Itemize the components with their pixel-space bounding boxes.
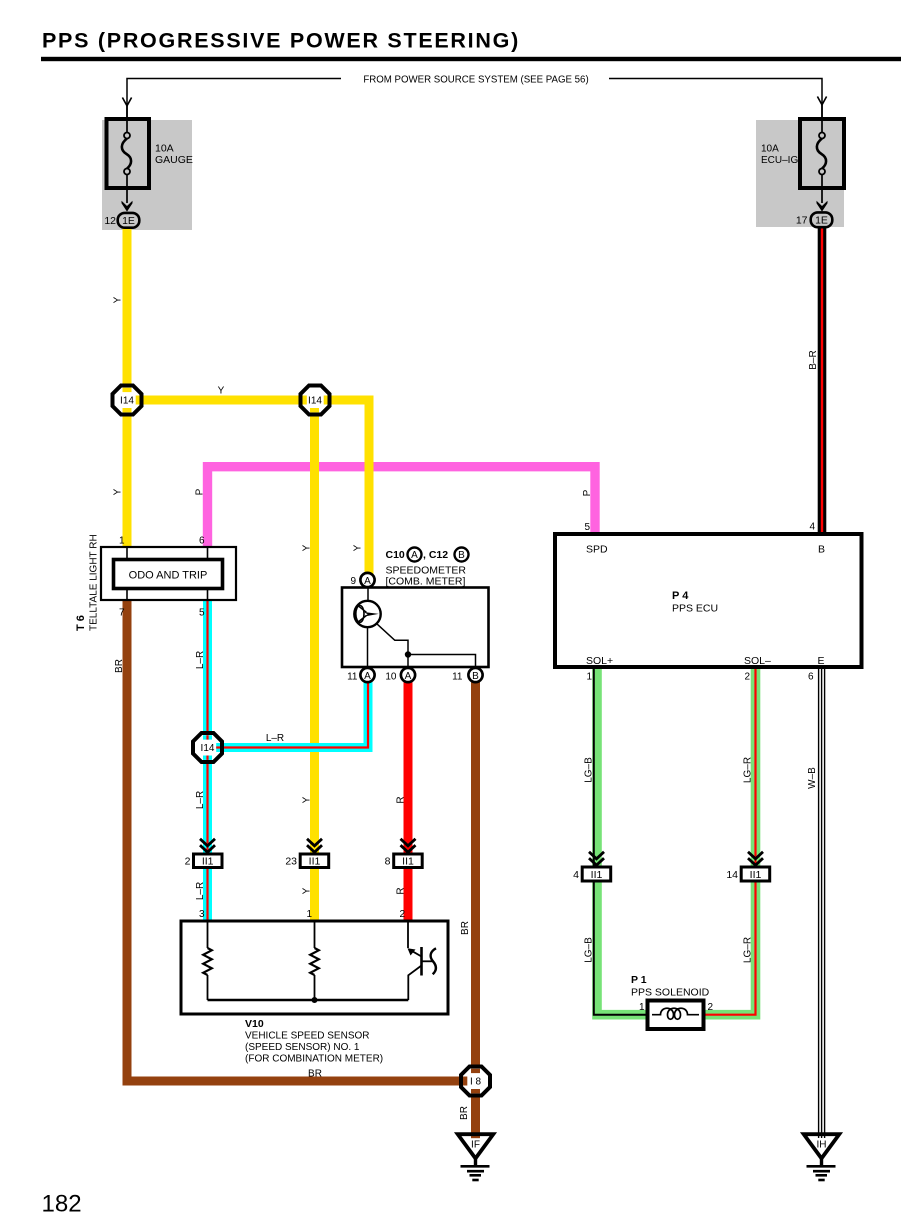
wire B-R ECU-IG fuse to ECU pin B (818, 227, 827, 537)
svg-text:23: 23 (285, 856, 297, 868)
svg-text:A: A (405, 671, 412, 682)
junction I14 top-left (113, 386, 142, 415)
PPS ECU P4 (555, 522, 862, 683)
svg-text:V10: V10 (245, 1018, 264, 1030)
svg-text:LG–B: LG–B (584, 937, 595, 963)
svg-text:B–R: B–R (808, 350, 819, 369)
svg-text:2: 2 (399, 909, 405, 920)
internal lead to pin 11B (408, 655, 476, 669)
transistor sensor (407, 921, 409, 948)
svg-text:BR: BR (460, 921, 471, 935)
svg-text:PPS SOLENOID: PPS SOLENOID (631, 987, 710, 999)
V10 VEHICLE SPEED SENSOR (181, 909, 448, 1065)
svg-text:PPS (PROGRESSIVE POWER STEERIN: PPS (PROGRESSIVE POWER STEERING) (42, 29, 520, 53)
solid arrow into connector 1E (817, 201, 828, 212)
FUSE RIGHT 10A ECU-IG (761, 104, 844, 227)
pin 5 lead (207, 588, 209, 600)
svg-text:1: 1 (586, 672, 592, 683)
svg-text:P 1: P 1 (631, 974, 647, 986)
svg-text:C10: C10 (386, 549, 405, 561)
wire power feed left (127, 79, 341, 120)
svg-text:BR: BR (308, 1069, 322, 1080)
svg-text:Y: Y (218, 386, 225, 397)
svg-text:E: E (817, 655, 824, 667)
svg-text:LG–B: LG–B (584, 757, 595, 783)
junction I14 lower (193, 733, 222, 762)
connector II1 (8) (385, 839, 423, 868)
svg-text:GAUGE: GAUGE (155, 154, 193, 166)
SPEEDOMETER component C10/C12 (342, 548, 489, 683)
svg-text:1: 1 (639, 1002, 645, 1013)
internal diagonal to junction (377, 624, 409, 655)
svg-text:A: A (364, 671, 371, 682)
svg-text:T 6: T 6 (75, 615, 87, 631)
svg-text:4: 4 (573, 869, 579, 881)
svg-text:9: 9 (350, 576, 356, 587)
junction I8 bottom (461, 1067, 490, 1096)
svg-text:10A: 10A (155, 143, 174, 155)
svg-text:A: A (411, 550, 418, 561)
gauge symbol (354, 601, 380, 627)
svg-text:Y: Y (302, 796, 313, 803)
svg-text:5: 5 (584, 522, 590, 533)
wire Y from gauge fuse down to ODO pin1 (123, 228, 132, 549)
wire Y down to V10 pin 1 (310, 400, 319, 923)
fuse element (819, 133, 825, 139)
fuse block background left (102, 120, 192, 230)
svg-text:Y: Y (113, 296, 124, 303)
fuse block background right (756, 120, 844, 227)
fuse lead bottom (126, 175, 128, 204)
wire L-R cyan ODO pin5 down to V10 pin3 (203, 598, 212, 923)
svg-text:SPD: SPD (586, 544, 608, 556)
fuse lead top (126, 105, 128, 133)
connector oval 1E right (811, 212, 833, 227)
svg-text:VEHICLE SPEED SENSOR: VEHICLE SPEED SENSOR (245, 1031, 369, 1042)
connector oval 1E left (118, 213, 140, 228)
svg-text:Y: Y (353, 544, 364, 551)
svg-text:[COMB. METER]: [COMB. METER] (386, 576, 466, 588)
svg-text:B: B (458, 550, 465, 561)
connector II1 (4) (573, 852, 611, 881)
junction dot (312, 997, 318, 1003)
resistor middle (314, 921, 316, 948)
fuse lead bottom (821, 175, 823, 204)
svg-text:I 8: I 8 (470, 1077, 482, 1088)
pin 7 lead (126, 588, 128, 600)
svg-text:I14: I14 (201, 743, 215, 754)
svg-text:Y: Y (113, 488, 124, 495)
svg-text:BR: BR (114, 659, 125, 673)
svg-text:PPS ECU: PPS ECU (672, 603, 718, 615)
svg-text:182: 182 (42, 1191, 82, 1218)
svg-text:1: 1 (306, 909, 312, 920)
svg-text:6: 6 (199, 536, 205, 547)
svg-text:11: 11 (452, 672, 463, 683)
internal junction dot (405, 651, 411, 657)
svg-text:ECU–IG: ECU–IG (761, 155, 798, 166)
case (342, 588, 489, 668)
svg-text:II1: II1 (402, 856, 414, 868)
svg-text:17: 17 (796, 215, 808, 227)
pin 1 lead (126, 547, 128, 560)
svg-text:FROM POWER SOURCE SYSTEM (SEE: FROM POWER SOURCE SYSTEM (SEE PAGE 56) (363, 75, 588, 86)
svg-text:W–B: W–B (807, 767, 818, 789)
coil (652, 1008, 699, 1019)
wire Y horizontal I14 to speedometer pin 9 (127, 400, 369, 576)
wire P pink SPD feed (208, 467, 596, 549)
ground IF (458, 1134, 494, 1180)
fuse body (800, 119, 844, 188)
svg-text:B: B (818, 544, 825, 556)
svg-text:2: 2 (185, 856, 191, 868)
svg-text:12: 12 (104, 215, 116, 227)
wire BR left long run (127, 598, 476, 1081)
svg-text:BR: BR (459, 1106, 470, 1120)
arrow chevrons L-R (200, 839, 215, 846)
red stripe on B-R (821, 227, 823, 537)
svg-text:I14: I14 (120, 396, 134, 407)
svg-text:II1: II1 (202, 856, 214, 868)
WIRES (colored) (127, 227, 825, 1136)
wire LG-R SOL- to solenoid (701, 665, 756, 1015)
svg-text:L–R: L–R (195, 882, 206, 900)
svg-text:5: 5 (199, 608, 205, 619)
svg-text:B: B (472, 671, 479, 682)
black stripe on LG-B (594, 665, 650, 1015)
connector II1 (23) (285, 839, 328, 868)
arrow into right fuse (817, 97, 826, 105)
svg-text:SOL–: SOL– (744, 655, 771, 667)
internal lead to pin 10A (407, 655, 409, 669)
svg-text:10: 10 (385, 672, 397, 683)
ODO AND TRIP component T6 (75, 534, 236, 631)
internal lead from pin 9 (367, 587, 369, 601)
svg-text:1E: 1E (815, 215, 828, 227)
svg-text:4: 4 (809, 522, 815, 533)
red stripe on LG-R (701, 665, 756, 1015)
wire L-R branch to speedometer pin 11A (208, 678, 369, 748)
solid arrow into connector 1E (122, 201, 133, 212)
svg-text:IF: IF (471, 1140, 480, 1151)
svg-text:SOL+: SOL+ (586, 655, 613, 667)
junction I14 top-middle (301, 386, 330, 415)
title rule (41, 57, 901, 61)
svg-text:IH: IH (817, 1140, 827, 1151)
svg-text:I14: I14 (308, 396, 322, 407)
inner box (114, 560, 223, 589)
svg-text:LG–R: LG–R (743, 757, 754, 783)
pin 11 connector A (360, 668, 374, 682)
red stripe on L-R main (206, 598, 208, 923)
svg-text:Y: Y (302, 887, 313, 894)
svg-text:II1: II1 (591, 869, 603, 881)
svg-text:7: 7 (119, 608, 125, 619)
svg-text:2: 2 (744, 672, 750, 683)
svg-text:(SPEED SENSOR) NO. 1: (SPEED SENSOR) NO. 1 (245, 1042, 360, 1053)
svg-text:Y: Y (302, 544, 313, 551)
wire W-B triple line ECU pin E to ground IH (818, 667, 820, 1136)
fuse body (107, 119, 150, 188)
svg-text:8: 8 (385, 856, 391, 868)
svg-text:II1: II1 (750, 869, 762, 881)
svg-text:A: A (364, 576, 371, 587)
svg-text:TELLTALE LIGHT RH: TELLTALE LIGHT RH (89, 534, 100, 631)
PPS SOLENOID P1 (631, 974, 714, 1029)
svg-text:L–R: L–R (195, 651, 206, 669)
svg-text:L–R: L–R (266, 733, 284, 744)
svg-text:3: 3 (199, 909, 205, 920)
bottom bus (208, 999, 409, 1001)
svg-text:, C12: , C12 (423, 549, 448, 561)
svg-text:2: 2 (708, 1002, 714, 1013)
arrow into left fuse (122, 98, 131, 106)
svg-text:1: 1 (119, 536, 125, 547)
pin 6 lead (207, 547, 209, 560)
svg-text:(FOR COMBINATION METER): (FOR COMBINATION METER) (245, 1054, 383, 1065)
outer case (101, 547, 236, 600)
wire LG-B SOL+ to solenoid (597, 665, 650, 1015)
svg-text:L–R: L–R (195, 791, 206, 809)
fuse lead top (821, 104, 823, 133)
resistor left (207, 921, 209, 948)
WIRE LABELS (113, 296, 820, 1120)
wire R speedometer 10A to V10 pin2 (404, 680, 413, 923)
connector II1 row (2) (185, 839, 222, 868)
svg-text:ODO AND TRIP: ODO AND TRIP (129, 570, 208, 582)
svg-text:6: 6 (808, 672, 814, 683)
svg-text:P: P (582, 489, 593, 496)
svg-text:R: R (396, 887, 407, 894)
svg-text:10A: 10A (761, 144, 779, 155)
svg-text:P: P (195, 488, 206, 495)
svg-text:1E: 1E (122, 215, 135, 227)
svg-text:LG–R: LG–R (743, 937, 754, 963)
svg-text:II1: II1 (309, 856, 321, 868)
svg-text:11: 11 (347, 672, 358, 683)
fuse element (124, 133, 130, 139)
connector II1 (14) (726, 852, 769, 881)
svg-text:14: 14 (726, 869, 738, 881)
red stripe on L-R branch (208, 678, 369, 748)
wire BR from speedometer 11B to ground IF (471, 680, 480, 1136)
internal lead gauge to pin 11A (367, 627, 369, 668)
pin 11 connector B (468, 668, 482, 682)
svg-text:P 4: P 4 (672, 590, 689, 602)
wire power feed right (609, 79, 822, 120)
ground IH (804, 1134, 840, 1180)
svg-text:R: R (396, 796, 407, 803)
FUSE LEFT 10A GAUGE (104, 105, 193, 228)
pin 9 connector A (360, 573, 374, 587)
pin 10 connector A (401, 668, 415, 682)
